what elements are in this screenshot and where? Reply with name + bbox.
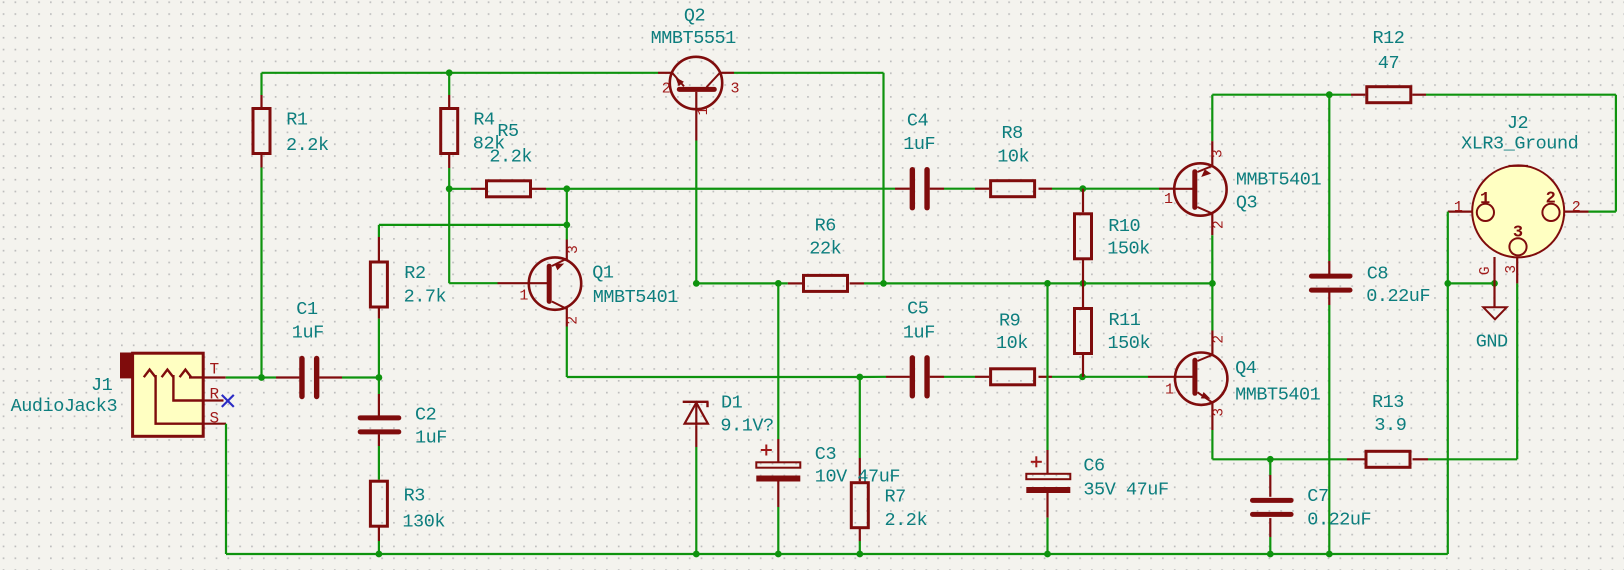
wire top rail right drop to R6 row bbox=[882, 73, 884, 284]
svg-text:1uF: 1uF bbox=[903, 134, 935, 155]
svg-text:R9: R9 bbox=[999, 310, 1020, 331]
node C8 ground junction bbox=[1326, 551, 1333, 558]
svg-text:3: 3 bbox=[731, 81, 740, 98]
svg-text:22k: 22k bbox=[809, 239, 841, 260]
wire R2 top run bbox=[379, 224, 567, 226]
wire R8 right to Q3 base bbox=[1039, 188, 1053, 190]
svg-text:3: 3 bbox=[1504, 265, 1520, 274]
node C3 ground junction bbox=[775, 551, 782, 558]
wire R3 bottom lead bbox=[378, 527, 380, 541]
resistor R8 bbox=[991, 181, 1035, 197]
wire Q2 base down bbox=[695, 110, 697, 141]
wire R1 top lead bbox=[260, 73, 262, 95]
node T junction bbox=[258, 374, 265, 381]
svg-text:35V 47uF: 35V 47uF bbox=[1083, 479, 1168, 500]
wire R4-node down to Q1 base bbox=[448, 189, 450, 283]
capacitor C1 bbox=[299, 359, 304, 397]
svg-text:2: 2 bbox=[1546, 190, 1556, 209]
wire R11 leads bbox=[1082, 283, 1084, 307]
svg-text:3: 3 bbox=[1513, 224, 1523, 243]
pin 3 contact bbox=[1509, 238, 1526, 255]
svg-text:C2: C2 bbox=[415, 404, 436, 425]
transistor Q2 MMBT5551 bbox=[670, 57, 722, 109]
wire R5 left lead bbox=[449, 188, 471, 190]
wire C8 bottom lead bbox=[1328, 292, 1330, 305]
wire C3 bottom lead bbox=[777, 481, 779, 507]
wire R6 right lead bbox=[850, 282, 864, 284]
svg-text:R4: R4 bbox=[473, 110, 495, 131]
svg-text:1: 1 bbox=[1165, 382, 1174, 399]
wire D1 bottom lead bbox=[695, 426, 697, 447]
wire C8 riser bbox=[1328, 95, 1330, 261]
svg-text:2: 2 bbox=[1212, 335, 1228, 344]
pin 1 contact bbox=[1477, 204, 1494, 221]
transistor Q3 MMBT5401 bbox=[1174, 163, 1226, 215]
resistor R13 bbox=[1366, 451, 1410, 467]
capacitor C4 bbox=[910, 170, 915, 208]
connector J2 XLR3_Ground bbox=[1472, 165, 1564, 257]
svg-text:3: 3 bbox=[566, 245, 582, 254]
node R6 right junction bbox=[880, 280, 887, 287]
svg-text:MMBT5401: MMBT5401 bbox=[1235, 385, 1321, 406]
node R10 top junction bbox=[1079, 185, 1086, 192]
svg-text:R7: R7 bbox=[885, 486, 906, 507]
wire bias row Q2-D1-R6 bbox=[696, 282, 788, 284]
node R4 bottom junction bbox=[446, 185, 453, 192]
node C1-C2-R2 junction bbox=[376, 374, 383, 381]
svg-text:R11: R11 bbox=[1109, 310, 1141, 331]
node R5 right junction bbox=[563, 185, 570, 192]
svg-text:C1: C1 bbox=[296, 299, 318, 320]
node R7 ground junction bbox=[856, 551, 863, 558]
svg-text:2.7k: 2.7k bbox=[404, 286, 447, 307]
node C6 ground junction bbox=[1044, 551, 1051, 558]
svg-text:Q2: Q2 bbox=[684, 6, 705, 27]
wire bias row to transistor pair bbox=[884, 282, 1213, 284]
wire C6 bottom lead bbox=[1046, 492, 1048, 517]
wire R5-node down to R2 row bbox=[566, 189, 568, 225]
wire C2 top lead bbox=[378, 378, 380, 395]
node R3 ground junction bbox=[376, 551, 383, 558]
svg-text:2: 2 bbox=[565, 316, 581, 325]
svg-text:C4: C4 bbox=[907, 110, 929, 131]
svg-text:Q1: Q1 bbox=[592, 263, 614, 284]
node R12 left junction bbox=[1326, 91, 1333, 98]
node C7 ground junction bbox=[1267, 551, 1274, 558]
wire Q3 emitter riser to R12 row bbox=[1211, 141, 1213, 166]
wire R4 bottom lead bbox=[448, 154, 450, 168]
svg-text:9.1V?: 9.1V? bbox=[720, 416, 773, 437]
wire ground node to G pin bbox=[1448, 282, 1495, 284]
node C6 tap junction bbox=[1044, 280, 1051, 287]
svg-text:1: 1 bbox=[1480, 190, 1490, 209]
wire ground rail bbox=[226, 553, 1448, 555]
wire C6 riser bbox=[1046, 283, 1048, 450]
wire C4 right to R8 bbox=[930, 188, 944, 190]
svg-text:10V 47uF: 10V 47uF bbox=[815, 467, 900, 488]
wire XLR pin1 lead bbox=[1448, 211, 1477, 213]
capacitor C8 bbox=[1311, 274, 1350, 279]
capacitor C2 bbox=[360, 415, 399, 420]
wire XLR pin1 down to ground node bbox=[1447, 212, 1449, 284]
wire Q1 pin2 down and right bbox=[566, 307, 568, 326]
node Q3-Q4 midpoint junction bbox=[1209, 280, 1216, 287]
wire C3 riser bbox=[777, 283, 779, 439]
wire XLR pin3 riser bbox=[1516, 283, 1518, 459]
transistor Q4 MMBT5401 bbox=[1175, 353, 1227, 405]
pin 2 contact bbox=[1542, 204, 1559, 221]
node XLR ground junction bbox=[1444, 280, 1451, 287]
svg-text:2.2k: 2.2k bbox=[885, 510, 928, 531]
transistor Q1 MMBT5401 bbox=[529, 257, 581, 309]
svg-text:AudioJack3: AudioJack3 bbox=[11, 396, 118, 417]
wire R1 bottom to T node bbox=[260, 154, 262, 168]
svg-text:Q3: Q3 bbox=[1236, 193, 1257, 214]
svg-text:MMBT5401: MMBT5401 bbox=[593, 287, 679, 308]
wire J1 sleeve down bbox=[203, 423, 226, 425]
pin R stub bbox=[203, 399, 223, 401]
wire R7 leads bbox=[859, 377, 861, 458]
wire C1 right lead bbox=[319, 376, 342, 378]
svg-text:R12: R12 bbox=[1373, 28, 1405, 49]
wire C5 left lead bbox=[860, 376, 886, 378]
connector J1 AudioJack3 bbox=[120, 353, 133, 379]
wire Q1 pin3 riser bbox=[566, 225, 568, 240]
svg-text:MMBT5401: MMBT5401 bbox=[1236, 169, 1322, 190]
node C7 top junction bbox=[1267, 456, 1274, 463]
capacitor C6 polarized bbox=[1026, 474, 1070, 479]
resistor R1 bbox=[253, 109, 270, 154]
resistor R11 bbox=[1075, 309, 1092, 354]
svg-text:D1: D1 bbox=[721, 392, 743, 413]
node R7 junction bbox=[856, 374, 863, 381]
svg-text:130k: 130k bbox=[402, 512, 445, 533]
wire ground rail right riser bbox=[1447, 283, 1449, 554]
svg-text:C5: C5 bbox=[907, 299, 928, 320]
resistor R10 bbox=[1075, 214, 1092, 259]
svg-text:0.22uF: 0.22uF bbox=[1307, 510, 1371, 531]
svg-text:150k: 150k bbox=[1107, 239, 1150, 260]
svg-text:2: 2 bbox=[1572, 199, 1581, 216]
capacitor C7 bbox=[1253, 498, 1292, 503]
svg-text:R1: R1 bbox=[286, 110, 308, 131]
resistor R12 bbox=[1367, 87, 1411, 103]
svg-text:J1: J1 bbox=[91, 375, 113, 396]
wire C2 bottom to R3 bbox=[378, 434, 380, 446]
wire Q4 emitter down to R13 row bbox=[1211, 403, 1213, 430]
node D1 ground junction bbox=[693, 551, 700, 558]
wire R13 right to XLR pin3 riser bbox=[1413, 458, 1429, 460]
svg-text:GND: GND bbox=[1476, 331, 1508, 352]
node Q1 collector junction bbox=[563, 222, 570, 229]
svg-text:R2: R2 bbox=[404, 263, 425, 284]
node R11 bottom junction bbox=[1079, 373, 1086, 380]
wire C7 leads bbox=[1269, 459, 1271, 475]
svg-text:S: S bbox=[210, 410, 219, 428]
svg-text:1: 1 bbox=[1454, 199, 1463, 216]
svg-text:G: G bbox=[1478, 266, 1494, 275]
svg-text:T: T bbox=[210, 360, 219, 378]
svg-text:R8: R8 bbox=[1002, 123, 1023, 144]
wire R4 top lead bbox=[448, 73, 450, 95]
svg-text:1uF: 1uF bbox=[903, 322, 935, 343]
svg-text:J2: J2 bbox=[1507, 113, 1528, 134]
node Q2 base junction bbox=[693, 280, 700, 287]
svg-text:C6: C6 bbox=[1083, 456, 1104, 477]
svg-text:2: 2 bbox=[662, 81, 671, 98]
svg-text:R6: R6 bbox=[815, 216, 836, 237]
node supply-R4 junction bbox=[446, 69, 453, 76]
svg-text:47: 47 bbox=[1378, 53, 1399, 74]
wire C5 right to R9 bbox=[930, 376, 944, 378]
wire R9 right to Q4 base bbox=[1039, 376, 1053, 378]
resistor R3 bbox=[370, 481, 387, 526]
svg-text:R5: R5 bbox=[497, 121, 518, 142]
svg-text:3: 3 bbox=[1211, 149, 1227, 158]
svg-text:10k: 10k bbox=[997, 147, 1029, 168]
wire Q3 pin2 to Q4 pin2 bbox=[1211, 214, 1213, 236]
svg-text:150k: 150k bbox=[1108, 333, 1151, 354]
svg-text:3.9: 3.9 bbox=[1374, 415, 1406, 436]
svg-text:2.2k: 2.2k bbox=[286, 135, 329, 156]
svg-text:1uF: 1uF bbox=[415, 428, 447, 449]
wire XLR G pin lead bbox=[1493, 257, 1495, 283]
svg-text:R3: R3 bbox=[404, 485, 425, 506]
resistor R7 bbox=[851, 483, 868, 528]
ground symbol GND bbox=[1493, 283, 1495, 307]
svg-text:MMBT5551: MMBT5551 bbox=[651, 28, 737, 49]
svg-text:C3: C3 bbox=[815, 444, 836, 465]
node R10-R11 junction bbox=[1080, 280, 1087, 287]
svg-text:R10: R10 bbox=[1108, 216, 1140, 237]
resistor R4 bbox=[441, 109, 458, 154]
zener diode D1 bbox=[683, 401, 709, 403]
svg-text:1: 1 bbox=[1164, 191, 1173, 208]
svg-text:0.22uF: 0.22uF bbox=[1366, 286, 1430, 307]
resistor R6 bbox=[804, 275, 848, 291]
svg-text:1: 1 bbox=[696, 107, 712, 116]
svg-text:C8: C8 bbox=[1367, 263, 1388, 284]
svg-text:10k: 10k bbox=[996, 333, 1028, 354]
svg-text:C7: C7 bbox=[1307, 486, 1328, 507]
svg-text:2: 2 bbox=[1211, 220, 1227, 229]
no-connect cross bbox=[222, 395, 234, 407]
wire R10 leads bbox=[1082, 189, 1084, 213]
node C3 junction bbox=[775, 280, 782, 287]
resistor R2 bbox=[370, 262, 387, 307]
svg-text:R13: R13 bbox=[1372, 392, 1404, 413]
resistor R9 bbox=[991, 369, 1035, 385]
svg-text:1uF: 1uF bbox=[292, 323, 324, 344]
node G pin junction bbox=[1491, 280, 1498, 287]
wire R2 bottom lead bbox=[378, 308, 380, 319]
wire R5 right to C4 long run bbox=[532, 188, 546, 190]
svg-text:3: 3 bbox=[1212, 408, 1228, 417]
svg-text:XLR3_Ground: XLR3_Ground bbox=[1461, 133, 1578, 154]
wire R12 row down to XLR pin2 bbox=[1615, 95, 1617, 212]
svg-text:Q4: Q4 bbox=[1235, 358, 1257, 379]
wire top supply rail bbox=[262, 72, 659, 74]
capacitor C3 polarized bbox=[756, 462, 800, 467]
wire R13 left lead bbox=[1270, 458, 1347, 460]
wire R12 leads bbox=[1329, 94, 1351, 96]
svg-text:2.2k: 2.2k bbox=[489, 146, 532, 167]
capacitor C5 bbox=[910, 358, 915, 396]
wire J1 tip to C1 bbox=[203, 376, 226, 378]
svg-text:1: 1 bbox=[519, 287, 528, 304]
resistor R5 bbox=[487, 181, 531, 197]
